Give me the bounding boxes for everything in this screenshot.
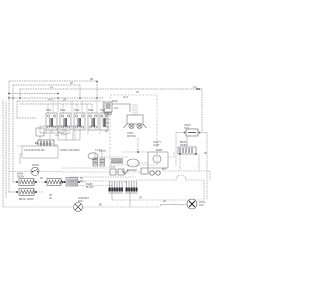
- element R5 striped box: [66, 178, 78, 187]
- wire from broil element right: [63, 181, 65, 183]
- svg-text:SW4: SW4: [88, 109, 94, 112]
- node dot at fan drop: [137, 151, 139, 153]
- relay K2 small box left: [36, 128, 44, 136]
- wire y132.5 through F1: [176, 132, 207, 134]
- motor M3 cooling fan: [187, 199, 197, 209]
- svg-text:SW5: SW5: [100, 109, 106, 112]
- cell row module: [40, 126, 64, 133]
- element R1 bake element zigzag: [19, 179, 35, 186]
- wire feeder x97: [96, 98, 98, 113]
- wire TB right side: [54, 144, 58, 146]
- label row above switch bank: [46, 109, 106, 112]
- wire left inner vertical x17: [16, 101, 18, 118]
- wire y210 to right: [130, 205, 186, 208]
- wire horizontal bus y98: [9, 97, 104, 99]
- wires middle-bottom horizontal runs: [62, 168, 141, 186]
- connector P2 baseline: [111, 162, 123, 164]
- node dots bake element: [16, 181, 18, 183]
- wire vertical from bus1 end down: [96, 82, 98, 99]
- wire feeder x77: [76, 104, 78, 113]
- svg-text:OVEN: OVEN: [184, 125, 191, 127]
- switch S1 surface unit switch box: [46, 113, 57, 130]
- wire left bus vertical 4: [12, 98, 14, 183]
- wire bottom from motor right: [83, 206, 131, 208]
- wire corner x110 up from y168: [109, 165, 111, 168]
- wire y193.5 right: [36, 191, 44, 193]
- oven control sub boxes: [58, 126, 80, 140]
- node dot bus1 end: [96, 81, 98, 83]
- svg-text:4R: 4R: [90, 78, 93, 81]
- motor M1 convection fan symbol: [124, 115, 147, 129]
- svg-text:1R: 1R: [80, 178, 83, 180]
- svg-text:DOOR: DOOR: [32, 165, 39, 167]
- wire bottom bus y205.5 left: [3, 206, 74, 208]
- wire arc below switch row: [58, 131, 70, 134]
- wire feeder x72: [71, 101, 73, 113]
- wire y177: [70, 176, 136, 178]
- wire drop x75: [74, 130, 76, 140]
- svg-text:MOTOR: MOTOR: [127, 136, 136, 138]
- svg-text:SW2: SW2: [60, 109, 66, 112]
- wire feeder x82: [81, 101, 83, 113]
- motor M2 circle with X: [74, 203, 83, 212]
- wire feeder x92: [91, 104, 93, 113]
- wire drop x106: [105, 130, 107, 133]
- svg-text:4-6: 4-6: [48, 99, 52, 102]
- wire right vertical drop at x202: [201, 89, 203, 132]
- wire feeds to hatched bars: [95, 152, 102, 158]
- svg-text:CAVITY: CAVITY: [153, 141, 162, 144]
- wire right of R5: [79, 181, 86, 183]
- wire right edge vertical x210: [209, 171, 211, 180]
- svg-text:2R: 2R: [40, 178, 43, 180]
- wire L1 top bus line 1: [9, 80, 97, 82]
- svg-text:OVEN CONTROL: OVEN CONTROL: [60, 149, 81, 152]
- svg-text:2R: 2R: [70, 83, 73, 85]
- wire into TB block: [17, 145, 35, 147]
- wire y185.5: [70, 185, 113, 187]
- component F1 thermal cutout box: [186, 129, 198, 136]
- wire left bus vertical 1: [2, 100, 4, 207]
- component door switch small box: [141, 168, 148, 174]
- lamp LP1 oval: [88, 153, 98, 159]
- wire horizontal y118 from x17: [17, 117, 36, 119]
- node dots at R4: [179, 153, 181, 155]
- component F1 innards: [188, 132, 196, 134]
- switch S7 door switch contacts: [150, 171, 154, 175]
- svg-text:LAMP: LAMP: [153, 144, 160, 147]
- wire vertical from bus2 end down: [79, 85, 81, 98]
- switch S3 surface unit switch box: [74, 113, 85, 130]
- svg-text:LOCK MOTOR SW: LOCK MOTOR SW: [24, 149, 45, 152]
- svg-text:TERM: TERM: [86, 184, 93, 186]
- box cavity lamp: [148, 152, 168, 168]
- wire y163 connects: [139, 162, 148, 164]
- node dots at F1: [184, 132, 186, 134]
- svg-text:BROIL 3400W: BROIL 3400W: [19, 199, 35, 201]
- board U1 outline: [112, 104, 130, 112]
- svg-text:MAIN: MAIN: [112, 100, 118, 103]
- relay K1 box on control board: [104, 102, 112, 112]
- switch feeder verticals: [48, 98, 103, 113]
- svg-text:DLB: DLB: [111, 167, 116, 169]
- wire from K2 down: [39, 136, 41, 140]
- wire feeder x48: [47, 104, 49, 113]
- wire dotted y171 right section: [148, 170, 210, 172]
- switch S6 contact marks: [33, 170, 38, 172]
- wire y184.5 from left bus: [13, 181, 17, 183]
- svg-text:2R: 2R: [49, 195, 52, 197]
- svg-text:SW3: SW3: [74, 109, 80, 112]
- wire drop x88: [87, 130, 89, 134]
- wire y157 connects: [104, 156, 128, 158]
- lamp LP2 circle in box: [153, 155, 161, 163]
- wire y168: [62, 167, 110, 169]
- switch S2 surface unit switch box: [60, 113, 71, 130]
- dashed enclosure oven control housing: [110, 95, 157, 165]
- wire horizontal y93.5: [9, 93, 58, 95]
- svg-text:COOL: COOL: [199, 202, 206, 204]
- box lock motor switch: [22, 146, 58, 158]
- wire L2 top bus line 2: [13, 84, 80, 86]
- wire feeder x103: [102, 101, 104, 113]
- wire from J2 down: [129, 192, 131, 207]
- svg-text:CLK: CLK: [114, 108, 119, 110]
- wire horizontal y104: [20, 103, 92, 105]
- component TB hatched block with terminals: [36, 140, 55, 151]
- connector P2 tick row: [112, 158, 122, 163]
- wire connecting R4 top: [186, 136, 188, 147]
- svg-text:BROIL: BROIL: [180, 142, 188, 144]
- svg-text:4R: 4R: [204, 152, 207, 155]
- switch S5 small end box: [100, 113, 108, 130]
- wire y181: [70, 180, 136, 182]
- svg-text:1R-2: 1R-2: [123, 97, 129, 99]
- wire feeder x53: [52, 98, 54, 113]
- connector J1 terminal comb: [109, 181, 124, 193]
- svg-text:BAKE: BAKE: [17, 173, 24, 176]
- wire right of lamp box corner: [168, 152, 174, 157]
- svg-text:LAMP: LAMP: [156, 149, 163, 152]
- wire L3 top bus line 3: [20, 88, 202, 90]
- wire fan down vertical x138: [137, 138, 139, 152]
- element R2 broil element zigzag: [47, 179, 63, 186]
- node dots element R5: [64, 181, 66, 183]
- wire feeder x58: [57, 98, 59, 113]
- wire horizontal y152: [122, 151, 148, 153]
- wire L3 corner drop: [19, 89, 21, 98]
- switch S4 surface unit switch box: [88, 113, 98, 130]
- wire y180 with crossover bump: [136, 175, 204, 180]
- wire left bus vertical 2: [5, 102, 7, 198]
- node arrow mark before right corner: [196, 88, 200, 90]
- node dots lower element: [16, 191, 18, 193]
- wire drop x50: [49, 130, 51, 140]
- wire feeder x63: [62, 104, 64, 113]
- wire drops below switches: [50, 130, 106, 140]
- svg-text:B-6: B-6: [162, 168, 166, 171]
- wire drop x100: [99, 130, 101, 134]
- oval component thermostat: [127, 159, 139, 167]
- diode mark: [122, 170, 128, 174]
- wire left bus vertical 3: [8, 98, 10, 193]
- relay K1 pin ticks: [105, 112, 111, 115]
- relay K4 small box above connector J1: [118, 169, 124, 175]
- svg-text:2605W: 2605W: [17, 177, 25, 179]
- convection fan feed verticals: [133, 104, 137, 115]
- wire between elements: [36, 181, 47, 183]
- svg-text:1R: 1R: [163, 200, 166, 203]
- svg-text:BLOCK: BLOCK: [86, 187, 94, 189]
- svg-text:1R: 1R: [139, 197, 142, 200]
- wire y172: [62, 171, 141, 173]
- terminal column P1 labels: [105, 119, 109, 133]
- wire L1 left corner drop: [8, 81, 10, 98]
- wire y193.5 stub left: [9, 191, 17, 193]
- node dots broil element: [45, 181, 47, 183]
- wire corner down x204: [203, 180, 205, 200]
- element R3 lower zigzag: [19, 189, 35, 196]
- svg-text:1R: 1R: [49, 198, 52, 200]
- svg-text:SW1: SW1: [46, 109, 52, 112]
- switch S6 lock switch circle: [31, 168, 39, 176]
- wire verticals below R4: [180, 154, 199, 170]
- wire dotted into cooling fan: [160, 204, 186, 206]
- svg-text:CONVECT: CONVECT: [78, 198, 90, 200]
- wire L2 corner drop: [12, 85, 14, 98]
- node dots y93.5: [8, 93, 10, 95]
- wire dotted y171: [9, 171, 62, 173]
- svg-text:CLK: CLK: [55, 135, 60, 137]
- relay K3 small box above connector J1: [110, 169, 116, 175]
- node dots on y98: [8, 97, 98, 99]
- wire vertical x207 down: [206, 133, 208, 201]
- element R4 right hatched box: [178, 147, 196, 154]
- wire from J1 down: [111, 192, 113, 200]
- wire drop x62: [61, 130, 63, 136]
- svg-text:FAN: FAN: [199, 204, 204, 207]
- connector J2 terminal comb: [126, 181, 138, 193]
- svg-text:1R: 1R: [63, 99, 66, 102]
- svg-text:LIGHT: LIGHT: [99, 151, 106, 153]
- wire y200 to right: [112, 199, 204, 201]
- wire vertical x176 down: [175, 133, 177, 167]
- box edge below lock module: [20, 154, 58, 164]
- wire horizontal y101: [17, 100, 103, 102]
- component pair hatched bars: [93, 158, 105, 166]
- svg-text:CONV: CONV: [127, 133, 134, 135]
- wire feeder x87: [86, 104, 88, 113]
